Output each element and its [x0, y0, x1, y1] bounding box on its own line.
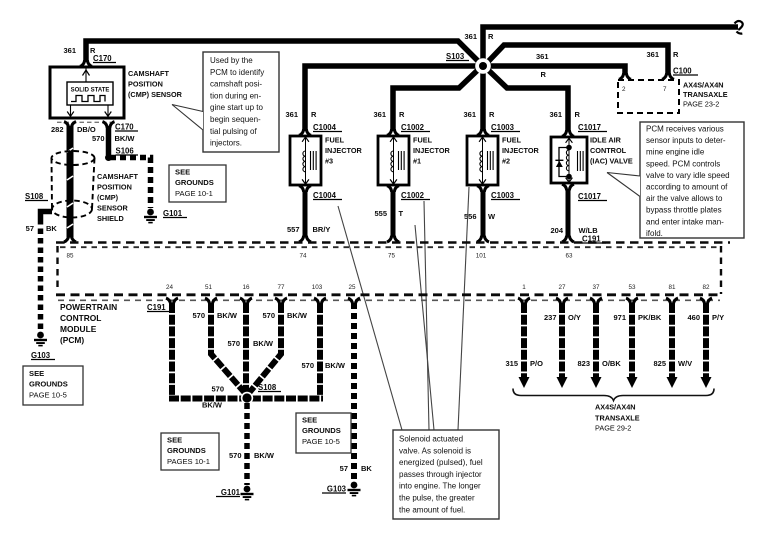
CMP sensor shield cylinder [52, 151, 95, 218]
svg-text:camshaft posi-: camshaft posi- [210, 80, 262, 89]
connector trumpet below pin 25 [348, 298, 360, 304]
svg-text:PK/BK: PK/BK [638, 313, 662, 322]
transaxle connector trumpet pin 27 [556, 298, 568, 304]
connector C170 label top [93, 54, 116, 63]
svg-text:570: 570 [301, 361, 314, 370]
svg-text:570: 570 [227, 339, 240, 348]
label FUEL INJECTOR #3 [325, 136, 362, 166]
svg-text:ifold.: ifold. [646, 229, 663, 238]
svg-text:C191: C191 [147, 303, 166, 312]
wire 971 PK/BK pin 53 [627, 303, 638, 388]
svg-text:(PCM): (PCM) [60, 335, 84, 345]
svg-text:C1004: C1004 [313, 123, 337, 132]
svg-text:MODULE: MODULE [60, 324, 97, 334]
transaxle connector trumpet pin 82 [700, 298, 712, 304]
wire 555 T to PCM pin 75 [391, 191, 396, 238]
svg-text:PCM to identify: PCM to identify [210, 68, 264, 77]
connector trumpet PCM pin 74 [299, 236, 311, 242]
wire 361 R top bus from S103 to right edge [483, 27, 738, 68]
svg-text:(IAC) VALVE: (IAC) VALVE [590, 157, 633, 166]
svg-text:R: R [541, 70, 547, 79]
wire from S106 to G101 [110, 158, 151, 209]
connector trumpet top injector 3 [299, 129, 311, 135]
connector C1002 label top [401, 123, 430, 132]
label CAMSHAFT POSITION (CMP) SENSOR [128, 69, 183, 99]
wire 361 R from S103 southeast to IAC valve [483, 65, 568, 131]
svg-text:DB/O: DB/O [77, 125, 96, 134]
PCM box left dashed border [56, 246, 58, 292]
svg-text:361: 361 [285, 110, 298, 119]
svg-text:T: T [399, 209, 404, 218]
label G101 [163, 209, 187, 218]
svg-text:CAMSHAFT: CAMSHAFT [128, 69, 169, 78]
svg-text:570: 570 [229, 451, 242, 460]
svg-text:R: R [399, 110, 405, 119]
connector C191 dashed line top [60, 246, 722, 248]
PCM box top dashed border [56, 241, 730, 244]
svg-text:R: R [575, 110, 581, 119]
wire 315 P/O pin 1 [519, 303, 530, 388]
svg-text:O/Y: O/Y [568, 313, 581, 322]
svg-text:FUEL: FUEL [325, 136, 345, 145]
svg-text:AX4S/AX4N: AX4S/AX4N [683, 81, 724, 90]
svg-text:BK/W: BK/W [217, 311, 238, 320]
PCM box right dashed border [720, 246, 722, 294]
connector trumpet below sensor left [64, 122, 76, 128]
camshaft position sensor box [50, 67, 124, 118]
label 361 R on east run [536, 52, 549, 79]
svg-text:Solenoid actuated: Solenoid actuated [399, 435, 463, 444]
label S103 [446, 52, 469, 61]
svg-text:825: 825 [653, 359, 666, 368]
label G103 [31, 351, 55, 360]
svg-text:injectors.: injectors. [210, 139, 242, 148]
connector C1004 label bottom [313, 191, 342, 200]
svg-text:C1004: C1004 [313, 191, 337, 200]
callout note: PCM receives various [607, 122, 744, 238]
svg-text:37: 37 [592, 284, 600, 291]
svg-text:P/O: P/O [530, 359, 543, 368]
svg-text:INJECTOR: INJECTOR [413, 146, 450, 155]
svg-text:POSITION: POSITION [128, 80, 163, 89]
wire 556 W to PCM pin 101 [481, 191, 486, 238]
label S108 shield splice [25, 192, 48, 201]
callout note: Used by the PCM [172, 52, 279, 152]
svg-text:POWERTRAIN: POWERTRAIN [60, 302, 117, 312]
connector trumpet PCM pin 63 [562, 236, 574, 242]
connector C1002 label bottom [401, 191, 430, 200]
connector C100 label [673, 67, 698, 76]
svg-text:C1017: C1017 [578, 192, 601, 201]
svg-text:O/BK: O/BK [602, 359, 621, 368]
connector trumpet below sensor right [103, 122, 115, 128]
wire 570 BK/W from pin 103 [317, 303, 323, 396]
svg-text:SENSOR: SENSOR [97, 204, 129, 213]
svg-text:C100: C100 [673, 67, 692, 76]
splice S103 [475, 58, 491, 74]
wire 570 BK/W from pin 24 [169, 303, 175, 396]
svg-text:G103: G103 [31, 351, 51, 360]
svg-text:GROUNDS: GROUNDS [29, 380, 68, 389]
label 361 R injector 3 riser [285, 110, 317, 119]
connector trumpet top IAC [562, 130, 574, 136]
label 315 P/O [505, 359, 543, 368]
label 237 O/Y [544, 313, 581, 322]
svg-text:85: 85 [66, 253, 74, 260]
svg-text:S106: S106 [116, 147, 135, 156]
svg-text:GROUNDS: GROUNDS [167, 446, 206, 455]
svg-text:GROUNDS: GROUNDS [302, 426, 341, 435]
svg-text:GROUNDS: GROUNDS [175, 178, 214, 187]
transaxle connector trumpet pin 37 [590, 298, 602, 304]
svg-text:mine engine idle: mine engine idle [646, 148, 705, 157]
label 570 BK/W bus [202, 385, 224, 410]
connector trumpet below pin 24 [166, 298, 178, 304]
svg-text:G101: G101 [221, 488, 241, 497]
svg-text:SEE: SEE [175, 168, 190, 177]
svg-text:begin sequen-: begin sequen- [210, 115, 261, 124]
label 361 R injector 1 riser [373, 110, 405, 119]
connector C170 label bottom [115, 123, 138, 132]
svg-text:valve to vary idle speed: valve to vary idle speed [646, 171, 730, 180]
callout note: Solenoid actuated valve [393, 430, 499, 519]
see grounds page 10-5 box middle [296, 413, 351, 453]
svg-text:57: 57 [26, 224, 34, 233]
svg-text:BK/W: BK/W [253, 339, 274, 348]
connector trumpet below pin 51 [205, 298, 217, 304]
see grounds pages 10-1 box lower [161, 433, 219, 470]
svg-text:25: 25 [348, 284, 356, 291]
svg-text:81: 81 [668, 284, 676, 291]
label 570 BK/W pin 77 wire [262, 311, 307, 320]
connector C100 dashed box [618, 80, 679, 113]
label FUEL INJECTOR #1 [413, 136, 450, 166]
label IDLE AIR CONTROL (IAC) VALVE [590, 136, 633, 166]
label POWERTRAIN CONTROL MODULE (PCM) [60, 302, 117, 345]
svg-text:16: 16 [242, 284, 250, 291]
svg-text:7: 7 [663, 86, 667, 93]
connector C1004 label top [313, 123, 342, 132]
ground G103 lower [348, 482, 361, 497]
svg-text:C1002: C1002 [401, 191, 425, 200]
connector trumpet C170 top of CMP sensor [80, 60, 92, 66]
svg-text:C1003: C1003 [491, 191, 515, 200]
connector C170 dashed line below sensor [57, 121, 111, 123]
label G103 [322, 485, 347, 494]
svg-text:(CMP): (CMP) [97, 193, 119, 202]
svg-text:51: 51 [205, 284, 213, 291]
svg-text:air the valve allows to: air the valve allows to [646, 194, 723, 203]
svg-text:S108: S108 [258, 383, 277, 392]
svg-text:557: 557 [287, 225, 300, 234]
wire 282 DB/O down to PCM pin 85 [67, 126, 74, 238]
svg-text:BK/W: BK/W [325, 361, 346, 370]
svg-text:74: 74 [299, 253, 307, 260]
connector trumpet below pin 77 [275, 298, 287, 304]
svg-text:361: 361 [536, 52, 549, 61]
svg-text:CONTROL: CONTROL [590, 146, 627, 155]
svg-text:R: R [311, 110, 317, 119]
svg-text:and enter intake man-: and enter intake man- [646, 217, 724, 226]
svg-text:according to amount of: according to amount of [646, 183, 728, 192]
label 825 W/V [653, 359, 692, 368]
splice S108 [241, 392, 253, 404]
label 570 BK/W pin 16 wire [227, 339, 273, 348]
wire 570 BK/W from pin 51 [211, 303, 245, 393]
svg-text:570: 570 [92, 134, 105, 143]
wire 361 R from S103 northeast to C100 pin 7 [483, 45, 668, 75]
wire end hook top right [735, 21, 743, 34]
connector trumpet C100 pin 2 [619, 73, 631, 79]
svg-text:TRANSAXLE: TRANSAXLE [595, 414, 640, 423]
svg-text:C170: C170 [115, 123, 134, 132]
fuel injector #3 box [290, 136, 321, 185]
svg-text:#3: #3 [325, 157, 333, 166]
svg-text:bypass throttle plates: bypass throttle plates [646, 206, 722, 215]
fuel injector #2 box [467, 136, 498, 185]
see grounds page 10-5 box left [23, 366, 83, 405]
svg-text:361: 361 [646, 50, 659, 59]
svg-text:P/Y: P/Y [712, 313, 724, 322]
svg-text:C170: C170 [93, 54, 112, 63]
svg-text:G101: G101 [163, 209, 183, 218]
svg-text:W: W [488, 212, 496, 221]
wire 460 P/Y pin 82 [701, 303, 712, 388]
wire 361 R from S103 southwest to fuel injector #1 [393, 65, 483, 131]
svg-text:Used by the: Used by the [210, 56, 253, 65]
label 823 O/BK [577, 359, 621, 368]
fuel injector #1 box [378, 136, 409, 185]
svg-text:FUEL: FUEL [413, 136, 433, 145]
ground G101 lower [241, 486, 254, 501]
svg-text:C1003: C1003 [491, 123, 515, 132]
wire 237 O/Y pin 27 [557, 303, 568, 388]
svg-text:BR/Y: BR/Y [313, 225, 331, 234]
svg-text:204: 204 [550, 226, 563, 235]
svg-text:PAGE 10-5: PAGE 10-5 [302, 437, 340, 446]
connector trumpet PCM pin 75 [387, 236, 399, 242]
svg-text:CAMSHAFT: CAMSHAFT [97, 172, 138, 181]
svg-text:W/V: W/V [678, 359, 692, 368]
label 557 BR/Y [287, 225, 330, 234]
svg-text:BK: BK [361, 464, 372, 473]
svg-text:57: 57 [340, 464, 348, 473]
svg-text:tion during en-: tion during en- [210, 91, 261, 100]
svg-text:C1017: C1017 [578, 123, 601, 132]
label 361 R injector 2 riser [463, 110, 495, 119]
transaxle connector trumpet pin 53 [626, 298, 638, 304]
connector trumpet below pin 16 [240, 298, 252, 304]
svg-text:361: 361 [463, 110, 476, 119]
label 555 T [374, 209, 403, 218]
wire 204 W/LB to PCM pin 63 [566, 190, 571, 238]
see grounds page 10-1 box upper [169, 165, 226, 202]
connector C1017 label bottom [578, 192, 607, 201]
label 570 BK/W pin 51 wire [192, 311, 237, 320]
svg-text:361: 361 [464, 32, 477, 41]
svg-text:BK/W: BK/W [287, 311, 308, 320]
transaxle connector trumpet pin 81 [666, 298, 678, 304]
label 204 W/LB [550, 226, 598, 235]
svg-text:S103: S103 [446, 52, 465, 61]
svg-text:63: 63 [565, 253, 573, 260]
brace for transaxle wires [513, 389, 714, 401]
label 282 DB/O [51, 125, 96, 134]
svg-text:BK: BK [46, 224, 57, 233]
ground G101 upper [144, 209, 157, 224]
connector trumpet PCM pin 101 [477, 236, 489, 242]
label 570 BK/W [92, 134, 135, 143]
svg-text:BK/W: BK/W [254, 451, 275, 460]
svg-text:361: 361 [549, 110, 562, 119]
svg-text:SEE: SEE [302, 416, 317, 425]
svg-text:570: 570 [192, 311, 205, 320]
connector trumpet below pin 103 [314, 298, 326, 304]
svg-text:valve. As solenoid is: valve. As solenoid is [399, 446, 471, 455]
label AX4S/AX4N TRANSAXLE PAGE 29-2 [595, 403, 640, 433]
label 361 R IAC riser [549, 110, 580, 119]
svg-text:1: 1 [522, 284, 526, 291]
label 460 P/Y [687, 313, 724, 322]
svg-text:556: 556 [464, 212, 477, 221]
connector trumpet top injector 1 [387, 129, 399, 135]
svg-text:PAGE 10-1: PAGE 10-1 [175, 189, 213, 198]
ground G103 left [34, 332, 47, 347]
svg-text:53: 53 [628, 284, 636, 291]
svg-text:the pulse, the greater: the pulse, the greater [399, 494, 475, 503]
svg-text:460: 460 [687, 313, 700, 322]
wire 361 R from S103 south to fuel injector #2 [480, 64, 486, 131]
svg-text:82: 82 [702, 284, 710, 291]
wire 570 BK/W from pin 16 [243, 303, 249, 393]
svg-text:PAGES 10-1: PAGES 10-1 [167, 457, 210, 466]
label CAMSHAFT POSITION (CMP) SENSOR SHIELD [97, 172, 138, 223]
svg-text:the amount of fuel.: the amount of fuel. [399, 505, 465, 514]
label 57 BK [340, 464, 373, 473]
svg-text:SOLID STATE: SOLID STATE [71, 88, 110, 94]
wire 361 R from C170 to S103 (top left run) [86, 41, 484, 67]
wire 57 BK shield drain to G103 [41, 212, 53, 220]
svg-text:2: 2 [622, 86, 626, 93]
svg-text:PAGE 29-2: PAGE 29-2 [595, 424, 631, 433]
label 361 R at top bus [464, 32, 494, 41]
label G101 [216, 488, 241, 497]
label 361 R at C170 run [63, 46, 96, 55]
svg-text:PAGE 23-2: PAGE 23-2 [683, 100, 719, 109]
svg-text:gine start up to: gine start up to [210, 103, 263, 112]
svg-text:INJECTOR: INJECTOR [502, 146, 539, 155]
svg-text:570: 570 [262, 311, 275, 320]
svg-text:103: 103 [312, 284, 323, 291]
svg-text:BK/W: BK/W [202, 401, 223, 410]
svg-text:555: 555 [374, 209, 387, 218]
svg-text:POSITION: POSITION [97, 183, 132, 192]
connector trumpet top injector 2 [477, 129, 489, 135]
svg-text:823: 823 [577, 359, 590, 368]
svg-text:PCM receives various: PCM receives various [646, 125, 724, 134]
label 556 W [464, 212, 496, 221]
svg-text:G103: G103 [327, 485, 347, 494]
connector C1003 label bottom [491, 191, 520, 200]
svg-text:R: R [488, 32, 494, 41]
connector C1017 label top [578, 123, 607, 132]
svg-text:IDLE AIR: IDLE AIR [590, 136, 622, 145]
svg-text:energized (pulsed), fuel: energized (pulsed), fuel [399, 458, 483, 467]
label AX4S/AX4N TRANSAXLE PAGE 23-2 [683, 81, 728, 109]
label 570 BK/W ground wire [229, 451, 275, 460]
wire 823 O/BK pin 37 [591, 303, 602, 388]
svg-text:sensor inputs to deter-: sensor inputs to deter- [646, 136, 726, 145]
connector trumpet C100 pin 7 [662, 73, 674, 79]
svg-text:75: 75 [388, 253, 396, 260]
callout pointer lines from solenoid note to injector wires [338, 187, 469, 430]
wire 57 BK from pin 25 to G103 [351, 303, 357, 481]
connector trumpet bottom injector 3 [299, 186, 311, 192]
svg-text:#2: #2 [502, 157, 510, 166]
svg-text:passes through injector: passes through injector [399, 470, 482, 479]
svg-text:24: 24 [166, 284, 174, 291]
svg-text:tial pulsing of: tial pulsing of [210, 127, 257, 136]
splice S106 [105, 154, 112, 161]
svg-text:315: 315 [505, 359, 518, 368]
svg-text:PAGE 10-5: PAGE 10-5 [29, 391, 67, 400]
wire 570 BK/W ground bus [169, 396, 323, 402]
svg-text:(CMP) SENSOR: (CMP) SENSOR [128, 90, 183, 99]
wire 557 BR/Y to PCM pin 74 [303, 191, 308, 238]
label S106 [116, 147, 139, 156]
label S108 [258, 383, 281, 392]
svg-text:27: 27 [558, 284, 566, 291]
PCM box bottom dashed border [56, 293, 722, 296]
connector trumpet bottom injector 1 [387, 186, 399, 192]
svg-text:TRANSAXLE: TRANSAXLE [683, 90, 728, 99]
connector C191 dashed line bottom [58, 299, 720, 301]
svg-text:R: R [673, 50, 679, 59]
svg-text:237: 237 [544, 313, 557, 322]
transaxle connector trumpet pin 1 [518, 298, 530, 304]
svg-text:971: 971 [613, 313, 626, 322]
wire 570 BK/W from sensor to S106 [106, 126, 112, 155]
label 570 BK/W pin 103 wire [301, 361, 345, 370]
label 57 BK [26, 224, 58, 233]
svg-text:INJECTOR: INJECTOR [325, 146, 362, 155]
wire 570 BK/W from S108 to G101 [244, 403, 250, 485]
connector C191 label at IAC wire [582, 235, 606, 244]
svg-text:S108: S108 [25, 192, 44, 201]
wire 570 BK/W from pin 77 [249, 303, 281, 393]
svg-text:570: 570 [211, 385, 224, 394]
label 971 PK/BK [613, 313, 661, 322]
wire 825 W/V pin 81 [667, 303, 678, 388]
svg-text:FUEL: FUEL [502, 136, 522, 145]
svg-text:361: 361 [373, 110, 386, 119]
svg-text:C1002: C1002 [401, 123, 425, 132]
connector trumpet PCM pin 85 [64, 236, 76, 242]
label FUEL INJECTOR #2 [502, 136, 539, 166]
svg-text:BK/W: BK/W [115, 134, 136, 143]
svg-text:AX4S/AX4N: AX4S/AX4N [595, 403, 636, 412]
svg-text:R: R [489, 110, 495, 119]
svg-text:SEE: SEE [29, 369, 44, 378]
idle air control IAC valve box [551, 137, 587, 183]
svg-text:CONTROL: CONTROL [60, 313, 101, 323]
svg-text:361: 361 [63, 46, 76, 55]
svg-text:282: 282 [51, 125, 64, 134]
svg-text:into engine. The longer: into engine. The longer [399, 482, 481, 491]
svg-text:101: 101 [476, 253, 487, 260]
connector trumpet bottom IAC [562, 184, 574, 190]
svg-text:SEE: SEE [167, 436, 182, 445]
